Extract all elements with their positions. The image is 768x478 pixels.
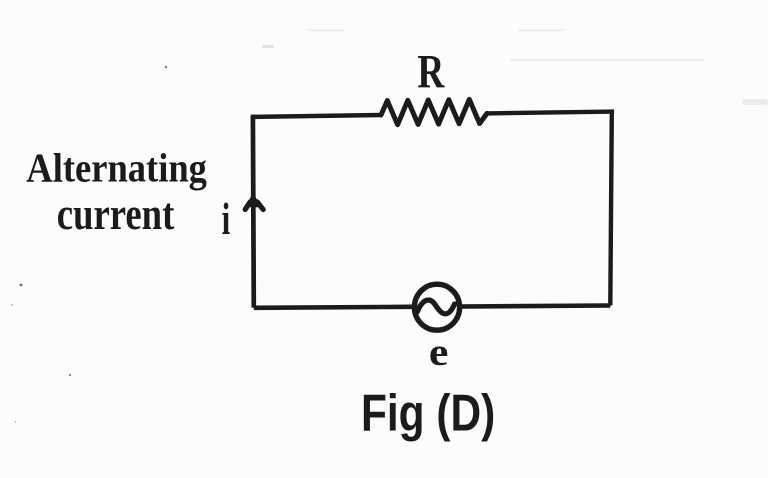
wire: right vertical: [610, 112, 612, 306]
scan speck lower-left: [69, 374, 71, 376]
svg-text:Fig (D): Fig (D): [361, 384, 495, 442]
svg-text:Alternating: Alternating: [26, 145, 207, 190]
AC source: sine wave: [417, 300, 454, 314]
wire: bottom-left segment: [254, 307, 413, 308]
current direction arrow head: [246, 192, 260, 208]
wire: top-right segment: [487, 112, 614, 114]
scan speck left-margin faint: [11, 304, 13, 306]
scan speck left-margin: [20, 284, 23, 287]
scan streak top faint 2: [518, 29, 564, 31]
wire: top-left segment: [253, 115, 381, 119]
svg-text:current: current: [57, 189, 175, 239]
wire: bottom-right segment: [462, 306, 611, 307]
scan streak dotted faint: [510, 59, 704, 61]
scan smudge above circuit: [262, 45, 274, 48]
scan speck lower-left faint: [14, 421, 16, 423]
scan speck top-center: [165, 66, 167, 68]
wire: left vertical: [251, 117, 257, 308]
svg-text:e: e: [429, 330, 449, 373]
scan streak top faint 1: [308, 29, 344, 31]
svg-text:R: R: [417, 46, 445, 98]
svg-text:i: i: [222, 195, 231, 244]
resistor R zigzag: [381, 99, 487, 124]
scan smudge right-edge faint: [742, 99, 768, 105]
AC source: circle: [414, 284, 459, 330]
